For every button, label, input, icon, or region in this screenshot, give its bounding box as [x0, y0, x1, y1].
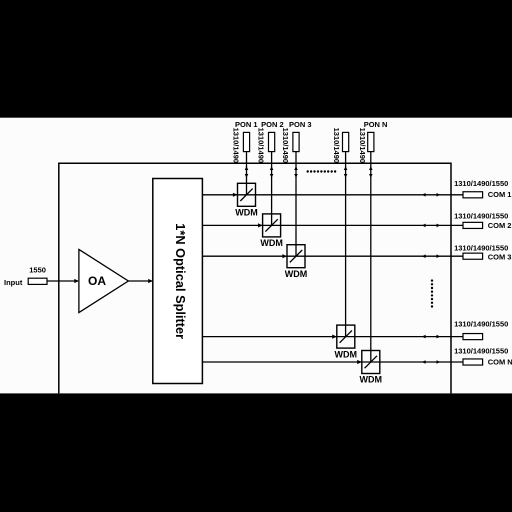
COM3 connector: [463, 253, 483, 259]
svg-text:COM N: COM N: [488, 357, 512, 366]
wire row5 splitter to COM N: [202, 361, 463, 363]
white content band: [0, 118, 512, 394]
svg-text:COM 3: COM 3: [488, 253, 512, 262]
svg-text:COM 1: COM 1: [488, 190, 512, 199]
svg-text:1310/1490: 1310/1490: [358, 128, 367, 163]
input fiber connector: [28, 278, 47, 284]
COM2 connector: [463, 222, 483, 228]
COM N-1 connector: [463, 334, 483, 340]
arrow pair on PON N-1 vertical: [344, 166, 348, 170]
horizontal ellipsis dots top: [307, 170, 337, 172]
svg-text:WDM: WDM: [335, 349, 358, 359]
arrowhead into WDM2: [258, 223, 263, 227]
svg-text:Input: Input: [4, 278, 23, 287]
svg-text:1310/1490/1550: 1310/1490/1550: [454, 320, 508, 329]
PON 2 connector: [269, 132, 275, 151]
wire row1 splitter to COM1: [202, 194, 463, 196]
PON N-1 connector: [343, 132, 349, 151]
outer system box: [59, 163, 451, 393]
wire input to OA: [47, 280, 78, 282]
svg-text:OA: OA: [88, 274, 106, 288]
bidirectional arrow pair row3: [422, 254, 426, 258]
arrow pair on PON1 vertical: [245, 166, 249, 170]
bidirectional arrow pair row2: [422, 224, 426, 228]
svg-text:WDM: WDM: [235, 208, 258, 218]
PON N vertical wire: [370, 152, 372, 362]
COM N connector: [463, 359, 483, 365]
PON 3 vertical wire: [295, 152, 297, 257]
wire OA to splitter: [128, 280, 152, 282]
PON 3 connector: [293, 132, 299, 151]
COM1 connector: [463, 192, 483, 198]
arrow pair on PON2 vertical: [270, 166, 274, 170]
bidirectional arrow pair row1: [422, 193, 426, 197]
svg-text:1310/1490: 1310/1490: [257, 128, 266, 163]
1*N Optical Splitter box: [153, 179, 203, 384]
WDM4 box: [337, 325, 355, 348]
WDM1 box: [238, 183, 256, 206]
PON 1 connector: [243, 132, 249, 151]
WDM5 box: [362, 351, 380, 374]
svg-text:COM 2: COM 2: [488, 221, 512, 230]
svg-text:WDM: WDM: [360, 375, 383, 385]
arrowhead into OA: [74, 279, 79, 283]
svg-text:1310/1490/1550: 1310/1490/1550: [454, 179, 508, 188]
arrowhead into WDM4: [332, 335, 337, 339]
svg-text:1310/1490/1550: 1310/1490/1550: [454, 244, 508, 253]
PON N connector: [368, 132, 374, 151]
svg-text:1*N Optical Splitter: 1*N Optical Splitter: [173, 223, 188, 339]
svg-text:WDM: WDM: [285, 269, 308, 279]
vertical ellipsis dots right: [431, 279, 433, 307]
arrowhead into WDM1: [233, 193, 238, 197]
WDM3 box: [287, 245, 305, 268]
op-amp style amplifier OA: [79, 249, 128, 312]
svg-text:WDM: WDM: [260, 238, 283, 248]
wire row2 splitter to COM2: [202, 224, 463, 226]
bidirectional arrow pair row4: [422, 335, 426, 339]
arrowhead into WDM5: [357, 360, 362, 364]
svg-text:1310/1490: 1310/1490: [332, 128, 341, 163]
PON 1 vertical wire: [246, 152, 248, 195]
svg-text:1310/1490/1550: 1310/1490/1550: [454, 212, 508, 221]
arrowhead into WDM3: [282, 254, 287, 258]
svg-text:1550: 1550: [29, 266, 46, 275]
bidirectional arrow pair row5: [422, 360, 426, 364]
svg-text:1310/1490: 1310/1490: [281, 128, 290, 163]
arrow pair on PON3 vertical: [294, 166, 298, 170]
wire row3 splitter to COM3: [202, 255, 463, 257]
svg-text:PON 3: PON 3: [289, 120, 312, 129]
WDM2 box: [263, 214, 281, 237]
svg-text:1310/1490: 1310/1490: [232, 128, 241, 163]
PON N-1 vertical wire: [345, 152, 347, 337]
arrow pair on PON N vertical: [369, 166, 373, 170]
arrowhead into splitter: [148, 279, 153, 283]
svg-text:1310/1490/1550: 1310/1490/1550: [454, 346, 508, 355]
PON 2 vertical wire: [271, 152, 273, 226]
wire row4 splitter to COM N-1: [202, 336, 463, 338]
